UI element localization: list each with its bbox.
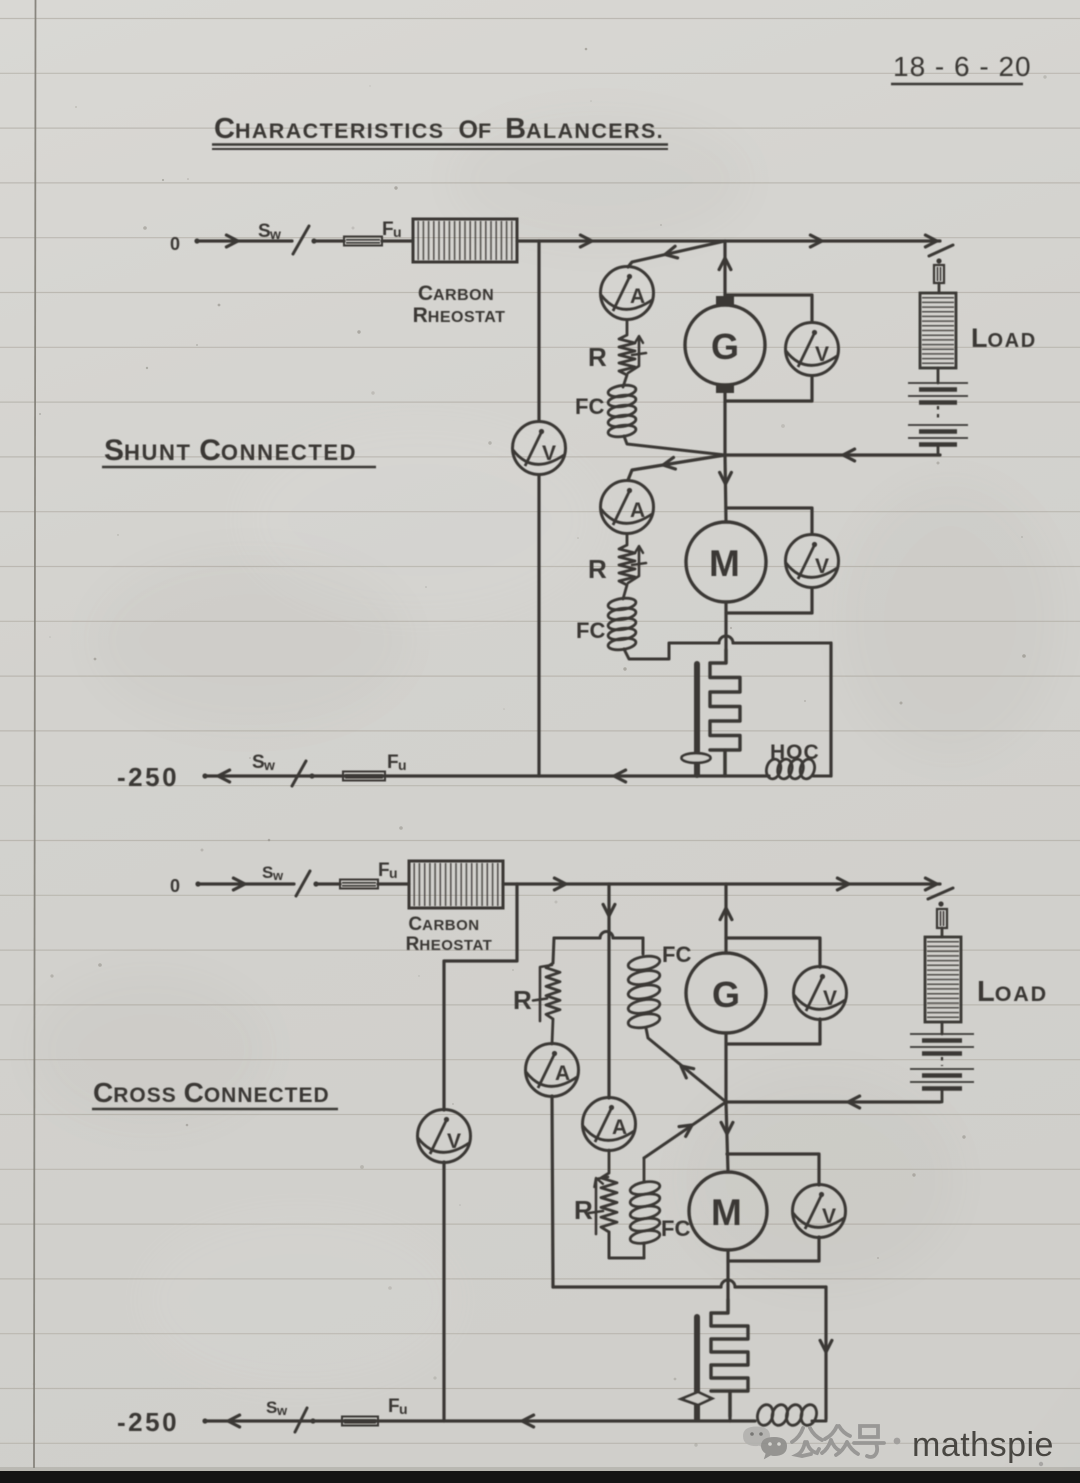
field coil FC1 (shunt gen) bbox=[575, 384, 637, 439]
wire meander to bottom bus (cross) bbox=[728, 1391, 731, 1421]
ammeter A3 (cross gen branch) bbox=[526, 1044, 579, 1097]
fuse Fu (cross +) bbox=[340, 860, 398, 889]
switch Sw (shunt -) bbox=[252, 752, 315, 786]
svg-text:-250: -250 bbox=[117, 762, 179, 792]
svg-text:S: S bbox=[252, 752, 265, 773]
wire balancer centre drop with arrow (cross) bbox=[603, 884, 615, 1098]
wire diagonal to ammeter A2 (shunt motor) bbox=[628, 455, 725, 480]
wire fuse to rheostat (shunt) bbox=[382, 239, 413, 242]
wire down to R3 (cross) bbox=[553, 938, 554, 963]
coil on bottom bus (cross) bbox=[755, 1403, 819, 1427]
watermark wechat icon bbox=[743, 1427, 787, 1460]
fuse on load branch (shunt) bbox=[934, 265, 944, 293]
wire R3 to A3 bbox=[552, 1019, 553, 1044]
voltmeter V across mains (shunt) bbox=[513, 422, 566, 475]
wire HOC to right rail (shunt) bbox=[813, 775, 831, 778]
battery stack (cross load) bbox=[910, 1034, 974, 1089]
title CHARACTERISTICS OF BALANCERS bbox=[212, 113, 668, 149]
switch Sw (cross -) bbox=[266, 1398, 316, 1432]
starter resistance meander (cross) bbox=[711, 1299, 748, 1417]
svg-text:w: w bbox=[263, 757, 275, 773]
svg-text:FC: FC bbox=[575, 394, 604, 419]
watermark dot bbox=[894, 1438, 901, 1445]
ammeter A1 (shunt gen) bbox=[601, 267, 654, 320]
svg-text:w: w bbox=[276, 1403, 288, 1418]
holding-on coil HOC (shunt) bbox=[764, 741, 819, 780]
wire R1 to FC1 bbox=[623, 375, 627, 387]
motor M (shunt) bbox=[686, 522, 766, 602]
svg-text:F: F bbox=[388, 1396, 400, 1417]
wire FC1 to junction (shunt) bbox=[624, 436, 725, 455]
wire + bus with arrow (cross) bbox=[198, 878, 294, 890]
fuse Fu (cross -) bbox=[342, 1396, 408, 1426]
wire right rail down (shunt) bbox=[829, 643, 832, 776]
svg-text:M: M bbox=[709, 543, 740, 584]
wire voltmeter to bottom bus (cross) bbox=[442, 1162, 445, 1421]
svg-text:G: G bbox=[711, 326, 739, 367]
wire mid bus y1102 with arrow (cross) bbox=[726, 1096, 940, 1108]
wire FC3 diagonal to centre junction with arrow (cross) bbox=[646, 1028, 726, 1102]
wire M bottom down (cross) bbox=[726, 1250, 729, 1311]
wire load to battery (cross) bbox=[941, 1022, 944, 1034]
node 0 (+ supply, cross) bbox=[170, 876, 201, 896]
svg-text:u: u bbox=[399, 1401, 408, 1417]
wire A3 down to cross link bbox=[552, 1096, 553, 1287]
svg-text:HOC: HOC bbox=[770, 741, 820, 764]
starter arm (cross) bbox=[681, 1317, 712, 1419]
wire right rail down with arrow (cross) bbox=[820, 1287, 832, 1419]
wire FC4 to link bbox=[643, 1243, 646, 1258]
field coil FC3 (cross gen) bbox=[627, 942, 691, 1030]
wire A2 to R2 bbox=[626, 534, 629, 545]
wire diagonal to ammeter A1 (shunt gen) bbox=[628, 241, 725, 267]
ammeter A2 (shunt motor) bbox=[601, 481, 654, 534]
svg-text:FC: FC bbox=[662, 942, 691, 967]
carbon rheostat (shunt) bbox=[413, 219, 517, 327]
svg-text:u: u bbox=[389, 865, 398, 881]
fuse Fu (shunt -) bbox=[343, 752, 407, 781]
field coil FC4 (cross motor) bbox=[629, 1158, 690, 1245]
resistor R4 (cross motor) bbox=[574, 1173, 617, 1234]
svg-text:0: 0 bbox=[170, 234, 180, 254]
fuse on load branch (cross) bbox=[937, 909, 947, 937]
wire field feed with hop (cross) bbox=[554, 932, 643, 939]
wire bottom bus (cross) bbox=[205, 1415, 755, 1427]
wire down to FC3 (cross) bbox=[642, 938, 645, 954]
resistor R2 (shunt motor) bbox=[588, 545, 646, 585]
wire R4 to link (cross) bbox=[609, 1232, 644, 1258]
svg-text:G: G bbox=[712, 974, 740, 1015]
node -250 (cross) bbox=[117, 1407, 208, 1437]
svg-text:w: w bbox=[269, 226, 281, 242]
svg-text:u: u bbox=[398, 757, 407, 773]
svg-text:0: 0 bbox=[170, 876, 180, 896]
wire diagonal junction to FC4 with arrow (cross) bbox=[644, 1102, 726, 1158]
starter arm (shunt) bbox=[682, 664, 711, 775]
svg-text:CARBON: CARBON bbox=[408, 914, 479, 935]
wire voltmeter V1 bracket (shunt gen) bbox=[727, 295, 812, 322]
photo edge black bar bbox=[0, 1471, 1080, 1483]
wire + bus with arrow (shunt) bbox=[197, 235, 292, 247]
generator G (shunt) bbox=[685, 305, 765, 385]
wire A4 to R4 bbox=[608, 1150, 611, 1173]
svg-text:FC: FC bbox=[576, 618, 605, 643]
svg-text:18 - 6 - 20: 18 - 6 - 20 bbox=[893, 51, 1032, 82]
node -250 (shunt) bbox=[117, 762, 208, 792]
watermark chinese text 公众号 bbox=[792, 1426, 884, 1457]
generator G (cross) bbox=[686, 953, 766, 1033]
wire voltmeter drop (shunt) bbox=[537, 241, 540, 776]
wire bottom bus (shunt) bbox=[205, 770, 769, 782]
wire battery to mid bus (cross) bbox=[940, 1089, 942, 1103]
load resistance box (shunt) bbox=[920, 293, 1037, 368]
wire load to battery (shunt) bbox=[937, 368, 940, 383]
svg-text:S: S bbox=[266, 1398, 277, 1417]
svg-text:mathspie: mathspie bbox=[912, 1426, 1054, 1464]
voltmeter V1 (shunt gen) bbox=[786, 323, 839, 376]
fuse Fu (shunt +) bbox=[344, 219, 402, 246]
watermark mathspie bbox=[912, 1426, 1054, 1466]
svg-text:FC: FC bbox=[661, 1216, 690, 1241]
node 0 (+ supply, shunt) bbox=[170, 234, 200, 254]
svg-text:F: F bbox=[378, 860, 390, 881]
field coil FC2 (shunt motor) bbox=[576, 597, 637, 652]
generator G brush top (shunt) bbox=[716, 296, 734, 305]
wire to fuse (shunt +) bbox=[314, 239, 344, 242]
ammeter A4 (cross motor branch) bbox=[583, 1098, 636, 1151]
wire voltmeter drop L-shape (cross) bbox=[444, 884, 517, 1110]
battery stack (shunt load) bbox=[908, 383, 968, 445]
svg-text:w: w bbox=[272, 868, 284, 883]
wire G bottom to junction (shunt) bbox=[723, 393, 726, 455]
wire cross link with hop (cross) bbox=[553, 1280, 826, 1287]
generator G brush bottom (shunt) bbox=[716, 384, 734, 393]
wire voltmeter V4 bracket (cross gen) bbox=[726, 938, 820, 967]
wire coil to right rail (cross) bbox=[812, 1420, 826, 1423]
voltmeter V4 (cross gen) bbox=[794, 967, 847, 1020]
switch on load branch (shunt) bbox=[929, 245, 953, 264]
wire battery to mid bus (shunt) bbox=[937, 445, 940, 456]
svg-text:u: u bbox=[393, 224, 402, 240]
wire meander to bottom bus (shunt) bbox=[723, 750, 726, 776]
voltmeter V5 (cross motor) bbox=[793, 1185, 846, 1238]
voltmeter V2 (shunt motor) bbox=[786, 535, 839, 588]
wire hop over motor lead (shunt) bbox=[719, 636, 733, 643]
starter resistance meander (shunt) bbox=[710, 649, 740, 776]
wire top bus (shunt) bbox=[517, 235, 940, 247]
wire M bottom to starter (shunt) bbox=[724, 602, 727, 663]
motor M (cross) bbox=[689, 1172, 767, 1250]
svg-text:F: F bbox=[382, 219, 394, 240]
wire generator top feed with arrow (shunt) bbox=[719, 241, 731, 298]
resistor R3 (cross gen) bbox=[513, 963, 560, 1021]
wire R2 to FC2 bbox=[623, 585, 627, 599]
carbon rheostat (cross) bbox=[406, 861, 503, 955]
svg-text:S: S bbox=[258, 221, 271, 242]
svg-text:R: R bbox=[513, 985, 532, 1015]
wire motor top feed with arrow (shunt) bbox=[720, 455, 732, 522]
wire voltmeter V2 bracket (shunt motor) bbox=[726, 508, 812, 534]
svg-text:M: M bbox=[711, 1192, 742, 1233]
resistor R1 (shunt gen) bbox=[588, 335, 646, 375]
wire centre junction to motor with arrow (cross) bbox=[721, 1102, 733, 1172]
switch Sw (shunt +) bbox=[258, 221, 317, 254]
wire voltmeter V5 bracket (cross motor) bbox=[727, 1154, 819, 1185]
wire G bottom to centre junction (cross) bbox=[724, 1033, 727, 1102]
svg-text:F: F bbox=[387, 752, 399, 773]
load resistance box (cross) bbox=[925, 937, 1048, 1022]
wire A1 to R1 bbox=[626, 320, 629, 335]
label CROSS CONNECTED bbox=[92, 1077, 338, 1109]
svg-text:-250: -250 bbox=[117, 1407, 179, 1437]
svg-text:S: S bbox=[262, 863, 273, 882]
date 18-6-20 bbox=[891, 51, 1032, 84]
svg-text:RHEOSTAT: RHEOSTAT bbox=[406, 934, 493, 955]
switch Sw (cross +) bbox=[262, 863, 319, 896]
wire top bus (cross) bbox=[503, 878, 940, 890]
svg-text:R: R bbox=[574, 1195, 593, 1225]
svg-text:R: R bbox=[588, 342, 607, 372]
wire to fuse (cross +) bbox=[316, 882, 340, 885]
wire fuse to rheostat (cross) bbox=[378, 882, 409, 885]
wire mid bus y455 with arrow (shunt) bbox=[725, 449, 940, 461]
voltmeter V across mains (cross) bbox=[418, 1110, 471, 1163]
wire FC2 bypass to right rail (shunt) bbox=[624, 643, 719, 659]
label SHUNT CONNECTED bbox=[102, 434, 376, 467]
svg-text:R: R bbox=[588, 554, 607, 584]
wire generator top feed with arrow (cross) bbox=[720, 884, 732, 953]
switch on load branch (cross) bbox=[928, 888, 953, 907]
